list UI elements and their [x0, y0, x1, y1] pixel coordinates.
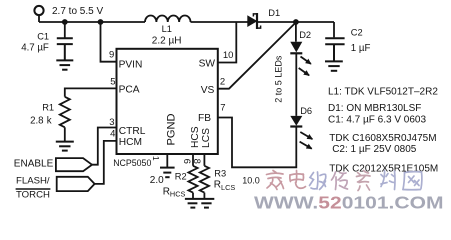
input terminal: [34, 6, 43, 15]
wire SW riser: [218, 22, 237, 63]
wire top rail left: [39, 21, 145, 23]
svg-text:3: 3: [109, 117, 114, 128]
svg-text:PGND: PGND: [165, 113, 177, 145]
svg-text:2 to 5 LEDs: 2 to 5 LEDs: [273, 55, 283, 103]
svg-text:R1: R1: [42, 102, 54, 112]
LED D2: [290, 42, 311, 76]
svg-text:ENABLE: ENABLE: [14, 159, 54, 170]
svg-text:FB: FB: [198, 113, 211, 124]
watermark char zi: [357, 171, 371, 191]
svg-text:10: 10: [223, 50, 234, 61]
ground R2 R3 shared: [185, 199, 214, 208]
ground C2: [325, 61, 343, 70]
svg-text:HCM: HCM: [119, 137, 142, 148]
junction dot PVIN tap: [98, 19, 104, 25]
svg-text:4: 4: [110, 128, 115, 139]
wire pin4 to FLASH: [95, 141, 117, 184]
svg-text:8: 8: [191, 159, 202, 164]
svg-text:D2: D2: [299, 30, 311, 40]
ground C1: [56, 60, 73, 69]
svg-text:CTRL: CTRL: [119, 126, 146, 137]
watermark char liao: [381, 171, 395, 190]
svg-text:10.0: 10.0: [242, 176, 260, 186]
svg-text:2.8 k: 2.8 k: [30, 115, 52, 126]
wire PGND stub: [166, 154, 168, 168]
wire LCS stub: [203, 154, 205, 166]
watermark char dian: [290, 171, 306, 189]
svg-text:L1: TDK VLF5012T–2R2: L1: TDK VLF5012T–2R2: [328, 87, 438, 98]
svg-text:1 µF: 1 µF: [351, 43, 371, 54]
label TORCH overline: [16, 188, 51, 190]
svg-text:D1: D1: [268, 8, 280, 18]
svg-text:D6: D6: [300, 106, 312, 116]
diode D1 schottky: [247, 13, 260, 29]
watermark char jia: [267, 171, 284, 190]
svg-text:TORCH: TORCH: [16, 190, 50, 201]
watermark char wang: [403, 172, 422, 190]
watermark char xiu: [332, 172, 348, 190]
wire rail D1 to C2 corner: [257, 21, 334, 23]
wire pin5 to R1: [65, 88, 117, 96]
wire C1 stem: [64, 22, 66, 38]
wire pin9 PVIN: [101, 22, 117, 62]
svg-text:R3: R3: [214, 169, 226, 179]
watermark char wei: [310, 172, 326, 190]
svg-text:LCS: LCS: [201, 128, 212, 148]
wire R2 to ground: [192, 193, 194, 199]
svg-text:L1: L1: [162, 24, 172, 34]
node output junction: [293, 19, 299, 25]
svg-text:WWW.520101.COM: WWW.520101.COM: [254, 193, 443, 211]
svg-text:C1: C1: [37, 31, 49, 41]
wire rail to D1: [191, 21, 248, 23]
capacitor C1: [57, 38, 73, 59]
svg-text:VS: VS: [201, 85, 215, 96]
wire pin3 to ENABLE: [92, 128, 117, 165]
svg-text:NCP5050: NCP5050: [113, 158, 151, 168]
wire VS diagonal: [218, 22, 296, 88]
svg-text:4.7 µF: 4.7 µF: [21, 42, 49, 53]
svg-text:2.0: 2.0: [150, 175, 164, 186]
input flag FLASH/TORCH: [57, 177, 95, 191]
svg-text:2.2 µH: 2.2 µH: [152, 36, 182, 47]
wire FB to LED bottom: [218, 118, 296, 168]
svg-text:RLCS: RLCS: [214, 180, 236, 192]
svg-text:6: 6: [181, 159, 192, 164]
wire C2 stem: [333, 22, 335, 37]
svg-text:1: 1: [151, 156, 161, 161]
svg-text:PCA: PCA: [119, 84, 140, 95]
wire R1 to ground: [64, 127, 66, 141]
svg-text:2: 2: [220, 76, 225, 87]
svg-text:FLASH/: FLASH/: [16, 175, 50, 186]
wire D2 to D6: [295, 54, 297, 116]
ground PGND pin1: [160, 168, 175, 178]
svg-text:SW: SW: [199, 58, 216, 69]
resistor R3: [200, 166, 209, 193]
svg-text:2.7 to 5.5 V: 2.7 to 5.5 V: [52, 6, 103, 17]
svg-text:5: 5: [110, 76, 115, 87]
svg-text:PVIN: PVIN: [119, 60, 143, 71]
resistor R1: [60, 97, 70, 127]
svg-text:TDK C1608X5R0J475M: TDK C1608X5R0J475M: [329, 133, 436, 144]
junction dot C1 tap: [62, 19, 68, 25]
svg-text:7: 7: [220, 103, 225, 114]
inductor L1: [145, 15, 191, 22]
input flag ENABLE: [56, 158, 92, 171]
ground R1: [56, 142, 74, 151]
svg-text:D1: ON MBR130LSF: D1: ON MBR130LSF: [328, 103, 421, 114]
wire R3 to ground: [203, 193, 205, 199]
LED D6: [290, 116, 312, 149]
wire terminal drop: [38, 15, 40, 22]
svg-text:9: 9: [109, 49, 114, 60]
wire LED chain top: [295, 22, 297, 42]
svg-text:C2: C2: [351, 28, 363, 38]
svg-text:C2: 1 µF 25V 0805: C2: 1 µF 25V 0805: [332, 144, 417, 155]
capacitor C2: [325, 38, 344, 60]
svg-text:RHCS: RHCS: [163, 186, 186, 198]
wire HCS stub: [192, 154, 194, 166]
resistor R2: [188, 166, 197, 193]
op IC U1 NCP5050 box: [117, 49, 218, 154]
svg-text:HCS: HCS: [190, 126, 201, 148]
svg-text:C1: 4.7 µF 6.3 V 0603: C1: 4.7 µF 6.3 V 0603: [328, 115, 426, 126]
svg-text:R2: R2: [175, 171, 187, 181]
